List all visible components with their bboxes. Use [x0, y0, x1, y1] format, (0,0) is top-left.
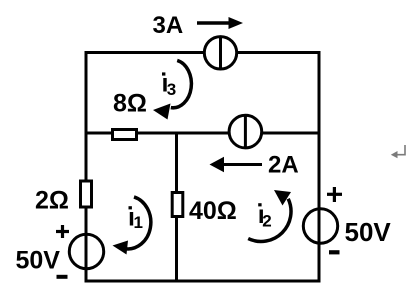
plus sign right source [327, 187, 342, 202]
resistor 2ohm (left branch) [81, 181, 92, 207]
svg-text:3: 3 [167, 80, 176, 99]
mesh current arrow i2 (bottom-middle loop, counterclockwise arc) [248, 190, 291, 241]
svg-text:2Ω: 2Ω [35, 187, 69, 215]
mesh current arrow i3 (top loop, clockwise arc) [153, 60, 191, 119]
svg-text:40Ω: 40Ω [189, 197, 237, 225]
voltage source 50V (left) [69, 234, 103, 268]
svg-text:50V: 50V [345, 217, 392, 247]
resistor 8ohm (middle wire) [113, 130, 137, 140]
plus sign left source [56, 225, 69, 238]
resistor 40ohm (middle branch) [172, 193, 183, 217]
paragraph return mark (gray) [391, 145, 405, 158]
wire middle horizontal [86, 132, 319, 135]
svg-text:2: 2 [262, 212, 271, 231]
arrow for 3A (pointing right) [197, 17, 243, 29]
svg-text:1: 1 [134, 213, 143, 232]
label i2 [258, 201, 272, 230]
wire bottom [85, 280, 321, 283]
wire left branch [85, 51, 88, 283]
current source 3A (top) [204, 37, 236, 69]
mesh current arrow i1 (bottom-left loop, clockwise arc) [113, 197, 151, 255]
svg-text:50V: 50V [16, 247, 61, 275]
voltage source 50V (right) [303, 209, 337, 243]
svg-text:8Ω: 8Ω [113, 90, 147, 118]
minus sign left source [57, 275, 68, 279]
wire top (node between left branch and right branch) [85, 51, 321, 54]
arrow for 2A (pointing left) [210, 157, 263, 172]
svg-text:2A: 2A [268, 152, 299, 179]
wire right branch [318, 51, 321, 283]
svg-text:3A: 3A [153, 12, 184, 39]
label i1 [128, 204, 143, 233]
wire middle branch [175, 133, 178, 281]
label i3 [162, 70, 177, 100]
current source 2A (middle) [229, 115, 262, 148]
minus sign right source [329, 250, 340, 254]
